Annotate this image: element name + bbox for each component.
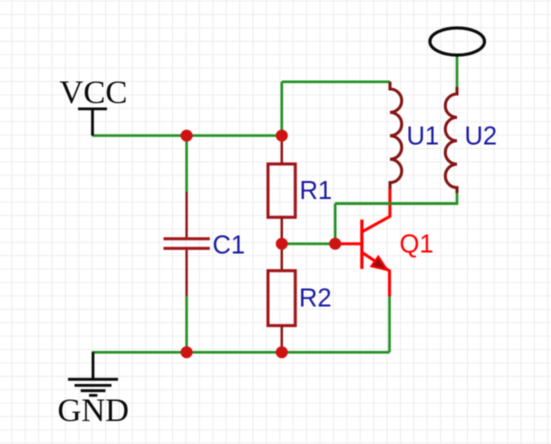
net label VCC: [60, 75, 128, 111]
junction at GND/C1: [181, 346, 193, 358]
resistor R1: [268, 136, 295, 244]
label R2: [299, 285, 332, 313]
inductor U2: [445, 87, 457, 193]
ground symbol: [68, 352, 118, 395]
junction at VCC/C1: [181, 130, 193, 142]
wire VCC rail top: [92, 134, 282, 137]
wire over collector (green crosses red): [335, 202, 457, 205]
junction at base node: [329, 238, 341, 250]
junction at VCC/R1: [276, 130, 288, 142]
wire emitter drop: [388, 297, 391, 353]
junction at R1/R2 divider: [276, 238, 288, 250]
wire top horizontal to U1: [282, 81, 390, 84]
svg-text:U2: U2: [465, 123, 498, 151]
svg-text:R1: R1: [300, 177, 333, 205]
svg-text:GND: GND: [58, 393, 130, 429]
wire U2 bottom corner: [335, 193, 457, 204]
wire C1 bottom drop: [185, 296, 188, 352]
svg-text:U1: U1: [407, 123, 440, 151]
wire ground rail: [92, 351, 390, 354]
wire base riser: [334, 204, 337, 244]
resistor R2: [268, 245, 295, 352]
label C1: [213, 232, 246, 260]
svg-text:R2: R2: [299, 285, 332, 313]
antenna symbol (ellipse): [430, 28, 485, 55]
wire C1 top drop: [185, 136, 188, 192]
power symbol VCC: [78, 109, 107, 136]
svg-text:Q1: Q1: [400, 231, 434, 259]
svg-text:VCC: VCC: [60, 75, 128, 111]
label Q1: [400, 231, 434, 259]
svg-text:C1: C1: [213, 232, 246, 260]
wire antenna to U2: [456, 55, 459, 87]
inductor U1: [390, 82, 402, 189]
net label GND: [58, 393, 130, 429]
wire riser to top: [280, 82, 283, 136]
transistor Q1: [336, 189, 390, 297]
wire base link: [282, 243, 335, 246]
junction at GND/R2: [276, 346, 288, 358]
label U2: [465, 123, 498, 151]
capacitor C1: [164, 192, 210, 296]
label R1: [300, 177, 333, 205]
label U1: [407, 123, 440, 151]
